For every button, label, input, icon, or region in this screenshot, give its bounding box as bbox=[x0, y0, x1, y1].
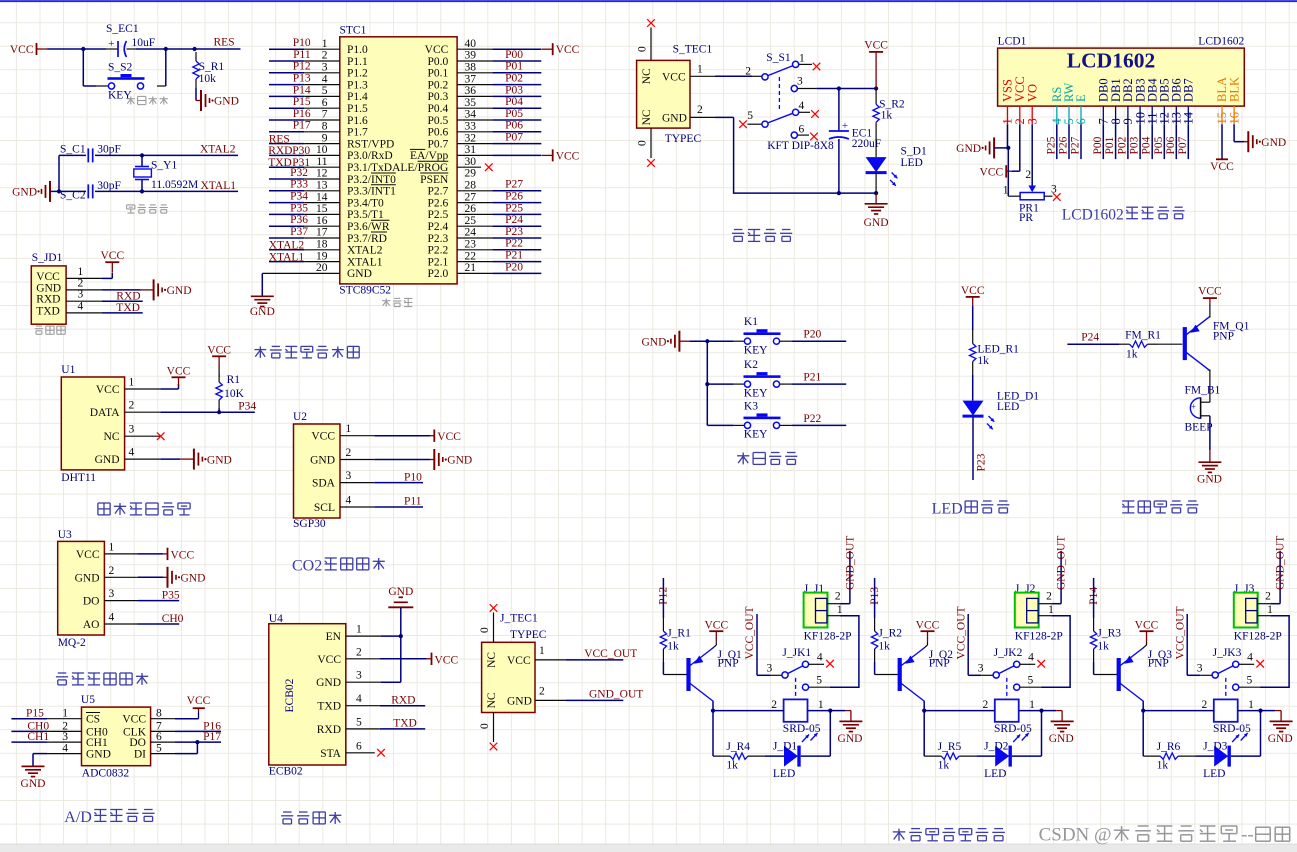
wire collector down bbox=[923, 702, 925, 757]
relay J_JK2 SRD-05 bbox=[995, 699, 1019, 721]
svg-text:1k: 1k bbox=[977, 355, 989, 367]
label 单片机最小系统 bbox=[254, 346, 266, 358]
dashed link switch to relay bbox=[795, 678, 797, 699]
svg-text:DO: DO bbox=[129, 737, 146, 749]
LCD BLK wire to GND bbox=[1233, 124, 1235, 141]
svg-text:SGP30: SGP30 bbox=[293, 518, 326, 530]
svg-text:GND_OUT: GND_OUT bbox=[589, 689, 643, 701]
svg-text:4: 4 bbox=[322, 73, 328, 85]
svg-text:XTAL1: XTAL1 bbox=[201, 180, 237, 192]
svg-text:P07: P07 bbox=[1177, 136, 1189, 154]
sensor U1 DHT11 box bbox=[61, 377, 124, 470]
svg-text:J_JK3: J_JK3 bbox=[1213, 647, 1242, 659]
pushbutton K1 KEY bbox=[707, 340, 733, 342]
svg-text:P11: P11 bbox=[404, 496, 422, 508]
svg-text:LED: LED bbox=[984, 768, 1006, 780]
svg-text:SRD-05: SRD-05 bbox=[994, 723, 1032, 735]
node junction R1/DATA bbox=[217, 410, 221, 414]
svg-text:NC: NC bbox=[486, 652, 498, 668]
svg-text:RXD: RXD bbox=[317, 724, 341, 736]
STC1 pin 8 P1.7 bbox=[269, 131, 304, 133]
svg-text:P2.7: P2.7 bbox=[428, 186, 449, 198]
svg-text:24: 24 bbox=[465, 227, 477, 239]
svg-text:KF128-2P: KF128-2P bbox=[1015, 631, 1063, 643]
STC1 pin 3 P1.2 bbox=[269, 72, 304, 74]
node junction collector/coil bbox=[922, 709, 926, 713]
svg-text:TXD: TXD bbox=[36, 305, 60, 317]
U4 pin6 STA no-connect bbox=[346, 752, 375, 754]
svg-text:20: 20 bbox=[316, 262, 328, 274]
svg-text:2: 2 bbox=[1265, 591, 1271, 603]
svg-text:5: 5 bbox=[1247, 674, 1253, 686]
svg-text:J_R3: J_R3 bbox=[1097, 628, 1121, 640]
svg-text:VCC: VCC bbox=[100, 250, 124, 262]
svg-text:P02: P02 bbox=[505, 73, 523, 85]
svg-text:SCL: SCL bbox=[314, 502, 335, 514]
svg-text:PR: PR bbox=[1019, 212, 1033, 224]
U5 pin3 wire CH1 bbox=[11, 741, 47, 743]
wire junction down to LED row bbox=[1041, 711, 1043, 757]
svg-text:1k: 1k bbox=[667, 641, 679, 653]
svg-text:DI: DI bbox=[134, 749, 146, 761]
svg-text:VCC_OUT: VCC_OUT bbox=[1174, 606, 1186, 659]
ground (reset) bbox=[200, 90, 202, 111]
wire FM_R1 to base bbox=[1158, 343, 1182, 345]
svg-text:VCC: VCC bbox=[1135, 620, 1159, 632]
U5 pin6 wire P17 bbox=[175, 741, 221, 743]
svg-text:14: 14 bbox=[316, 191, 328, 203]
no-connect X (J_TEC1 top) bbox=[490, 604, 498, 612]
STC1 pin 6 P1.5 bbox=[269, 107, 304, 109]
dashed link switch to relay bbox=[1006, 678, 1008, 699]
svg-text:J_R2: J_R2 bbox=[878, 628, 902, 640]
svg-text:VCC: VCC bbox=[437, 431, 461, 443]
STC1 pin 5 P1.4 bbox=[269, 95, 304, 97]
svg-text:LED: LED bbox=[997, 401, 1019, 413]
svg-text:P16: P16 bbox=[293, 108, 311, 120]
wire S_R1 to GND bbox=[195, 88, 197, 101]
svg-text:VCC: VCC bbox=[435, 654, 459, 666]
svg-text:GND: GND bbox=[1049, 733, 1074, 745]
svg-text:P23: P23 bbox=[505, 226, 523, 238]
svg-text:STC89C52: STC89C52 bbox=[339, 285, 391, 297]
svg-text:4: 4 bbox=[817, 652, 823, 664]
transistor J_Q2 PNP bbox=[898, 658, 902, 691]
svg-text:S_D1: S_D1 bbox=[901, 146, 927, 158]
svg-text:S_S1: S_S1 bbox=[766, 52, 791, 64]
svg-text:1: 1 bbox=[109, 541, 115, 553]
svg-text:P1.3: P1.3 bbox=[347, 79, 368, 91]
svg-text:GND: GND bbox=[75, 572, 100, 584]
svg-text:P0.5: P0.5 bbox=[428, 115, 449, 127]
svg-text:10uF: 10uF bbox=[132, 37, 156, 49]
ground (U1) bbox=[193, 449, 195, 470]
pushbutton K2 KEY bbox=[707, 383, 733, 385]
node junction XTAL1 bbox=[140, 189, 144, 193]
svg-text:13: 13 bbox=[316, 180, 328, 192]
svg-text:CSDN @: CSDN @ bbox=[1039, 825, 1112, 846]
svg-text:4: 4 bbox=[78, 300, 84, 312]
svg-text:P0.0: P0.0 bbox=[428, 56, 449, 68]
svg-text:VCC: VCC bbox=[122, 714, 146, 726]
S_JD1 pin3 wire RXD bbox=[102, 300, 143, 302]
svg-text:J_R5: J_R5 bbox=[938, 741, 962, 753]
svg-text:P2.6: P2.6 bbox=[428, 197, 449, 209]
svg-text:SDA: SDA bbox=[312, 478, 336, 490]
svg-text:P3.4/T0: P3.4/T0 bbox=[347, 197, 384, 209]
svg-text:1: 1 bbox=[346, 423, 352, 435]
svg-text:18: 18 bbox=[316, 239, 328, 251]
wire VCC to RES net bbox=[48, 48, 107, 50]
svg-text:P1.2: P1.2 bbox=[347, 68, 368, 80]
led J_D1 bbox=[765, 755, 784, 757]
svg-text:2: 2 bbox=[1201, 699, 1207, 711]
bottom scrollbar strip bbox=[0, 844, 1297, 852]
svg-text:PNP: PNP bbox=[718, 657, 739, 669]
svg-text:GND: GND bbox=[447, 455, 472, 467]
svg-text:1: 1 bbox=[1003, 185, 1009, 197]
STC1 pin 9 RST/VPD bbox=[269, 143, 304, 145]
svg-text:VCC: VCC bbox=[1198, 286, 1222, 298]
svg-text:RES: RES bbox=[214, 37, 235, 49]
svg-text:32: 32 bbox=[465, 132, 477, 144]
U4 pin4 wire RXD bbox=[346, 705, 380, 707]
svg-text:P2.4: P2.4 bbox=[428, 221, 449, 233]
svg-text:RST/VPD: RST/VPD bbox=[347, 138, 394, 150]
svg-text:LED: LED bbox=[1203, 768, 1225, 780]
svg-text:--: -- bbox=[1241, 825, 1254, 846]
svg-text:P2.5: P2.5 bbox=[428, 209, 449, 221]
LCD VSS wire bbox=[1007, 124, 1009, 148]
svg-text:VCC: VCC bbox=[317, 654, 341, 666]
wire J_R1 to base bbox=[662, 662, 664, 675]
svg-text:NC: NC bbox=[641, 109, 653, 125]
svg-text:VCC: VCC bbox=[76, 549, 100, 561]
svg-text:GND_OUT: GND_OUT bbox=[1056, 536, 1068, 590]
svg-text:CO2: CO2 bbox=[292, 558, 322, 575]
U5 pin1 wire P15 bbox=[11, 718, 47, 720]
svg-text:37: 37 bbox=[465, 73, 477, 85]
STC1 pin 16 P3.6/WR bbox=[269, 225, 304, 227]
svg-text:P05: P05 bbox=[1153, 136, 1165, 154]
svg-text:P17: P17 bbox=[293, 120, 311, 132]
svg-text:P21: P21 bbox=[803, 372, 821, 384]
svg-text:SRD-05: SRD-05 bbox=[1213, 723, 1251, 735]
wire collector to buzzer bbox=[1207, 369, 1209, 372]
svg-text:KEY: KEY bbox=[744, 345, 768, 357]
svg-text:P00: P00 bbox=[505, 49, 523, 61]
ground (beeper) bbox=[1198, 461, 1221, 463]
svg-text:12: 12 bbox=[316, 168, 328, 180]
svg-text:1k: 1k bbox=[938, 760, 950, 772]
lcd LCD1 box bbox=[998, 48, 1245, 106]
svg-text:VCC: VCC bbox=[425, 44, 449, 56]
svg-text:A/D: A/D bbox=[64, 809, 92, 826]
svg-text:P21: P21 bbox=[505, 250, 523, 262]
svg-text:XTAL1: XTAL1 bbox=[269, 251, 305, 263]
svg-text:+: + bbox=[842, 120, 848, 132]
label 晶振电路 bbox=[127, 205, 135, 213]
svg-text:VCC: VCC bbox=[187, 695, 211, 707]
svg-text:38: 38 bbox=[465, 62, 477, 74]
label 单片机 bbox=[382, 298, 390, 306]
svg-text:VCC: VCC bbox=[704, 620, 728, 632]
svg-text:3: 3 bbox=[62, 731, 68, 743]
svg-text:GND: GND bbox=[1197, 473, 1222, 485]
svg-text:1: 1 bbox=[1048, 604, 1054, 616]
svg-text:VCC: VCC bbox=[167, 365, 191, 377]
svg-text:VCC: VCC bbox=[864, 40, 888, 52]
resistor J_R6 1k bbox=[1143, 755, 1160, 757]
connector S_TEC1 box bbox=[637, 60, 690, 128]
connector J_TEC1 box bbox=[482, 642, 535, 712]
svg-text:1: 1 bbox=[837, 604, 843, 616]
svg-text:PNP: PNP bbox=[929, 657, 950, 669]
svg-text:K3: K3 bbox=[744, 400, 758, 412]
svg-text:16: 16 bbox=[316, 215, 328, 227]
resistor J_R1 1k bbox=[662, 618, 664, 631]
LCD VCC wire bbox=[1019, 124, 1021, 171]
svg-text:1: 1 bbox=[62, 708, 68, 720]
svg-text:TXD: TXD bbox=[268, 157, 292, 169]
adc U5 ADC0832 box bbox=[82, 707, 151, 766]
svg-text:19: 19 bbox=[316, 250, 328, 262]
svg-text:+: + bbox=[108, 38, 114, 50]
svg-text:GND: GND bbox=[36, 282, 61, 294]
svg-text:LCD1602: LCD1602 bbox=[1198, 36, 1244, 48]
svg-text:KEY: KEY bbox=[744, 429, 768, 441]
svg-text:J_TEC1: J_TEC1 bbox=[500, 613, 538, 625]
svg-text:TXD: TXD bbox=[393, 718, 417, 730]
svg-text:5: 5 bbox=[1028, 674, 1034, 686]
S_JD1 pin4 wire TXD bbox=[102, 312, 143, 314]
svg-text:3: 3 bbox=[109, 588, 115, 600]
svg-text:GND: GND bbox=[207, 454, 232, 466]
resistor J_R2 1k bbox=[874, 618, 876, 631]
sensor U2 SGP30 box bbox=[294, 424, 341, 518]
S_TEC1 shield wire bottom bbox=[650, 128, 652, 158]
resistor J_R3 1k bbox=[1093, 618, 1095, 631]
svg-text:GND: GND bbox=[86, 749, 111, 761]
svg-text:2: 2 bbox=[356, 646, 362, 658]
svg-text:CH1: CH1 bbox=[27, 731, 49, 743]
resistor S_R1 10k bbox=[195, 52, 197, 61]
svg-text:VCC: VCC bbox=[662, 72, 686, 84]
svg-text:1: 1 bbox=[356, 624, 362, 636]
svg-text:P03: P03 bbox=[1129, 136, 1141, 154]
S_S1 dashed gang line bbox=[778, 77, 780, 112]
svg-text:S_TEC1: S_TEC1 bbox=[673, 44, 713, 56]
node junction left of cap bbox=[81, 47, 85, 51]
node junction DO/DI bbox=[195, 740, 199, 744]
U1 pin2 wire DATA to P34 bbox=[160, 411, 255, 413]
U2 pin3 wire SDA P10 bbox=[374, 482, 423, 484]
U4 pin2 wire to VCC bbox=[346, 658, 380, 660]
STC1 pin 17 P3.7/RD bbox=[269, 237, 304, 239]
svg-text:RES: RES bbox=[269, 133, 290, 145]
resistor R1 10K bbox=[218, 365, 220, 377]
U3 pin2 wire to GND bbox=[138, 576, 163, 578]
svg-text:0: 0 bbox=[637, 140, 649, 146]
wire P13 to J_R2 bbox=[874, 578, 876, 618]
svg-text:J_R6: J_R6 bbox=[1157, 741, 1181, 753]
svg-text:1k: 1k bbox=[1157, 760, 1169, 772]
svg-text:GND: GND bbox=[21, 778, 46, 790]
svg-text:P22: P22 bbox=[803, 413, 821, 425]
svg-text:1k: 1k bbox=[1126, 349, 1138, 361]
svg-text:1: 1 bbox=[818, 699, 824, 711]
svg-text:31: 31 bbox=[465, 144, 477, 156]
svg-text:P22: P22 bbox=[505, 238, 523, 250]
svg-text:1: 1 bbox=[1029, 699, 1035, 711]
svg-text:11.0592M: 11.0592M bbox=[151, 179, 198, 191]
svg-text:5: 5 bbox=[356, 716, 362, 728]
ground (crystal) bbox=[49, 181, 51, 202]
svg-text:P1.6: P1.6 bbox=[347, 115, 368, 127]
svg-text:S_S2: S_S2 bbox=[108, 62, 133, 74]
U5 pin5 wire to DO bbox=[175, 753, 197, 755]
J_TEC1 shield wire bottom bbox=[493, 713, 495, 743]
svg-text:2: 2 bbox=[982, 699, 988, 711]
STC1 pin 20 GND wire and ground bbox=[262, 272, 340, 274]
svg-text:CH0: CH0 bbox=[162, 613, 184, 625]
transistor J_Q1 PNP bbox=[686, 658, 690, 691]
svg-text:GND_OUT: GND_OUT bbox=[1275, 536, 1287, 590]
svg-text:P25: P25 bbox=[505, 202, 523, 214]
svg-text:2: 2 bbox=[835, 591, 841, 603]
label 下载口 bbox=[35, 326, 43, 334]
STC1 pin 1 P1.0 bbox=[269, 48, 304, 50]
node junction at C2 bbox=[57, 189, 61, 193]
U4 EN wire to gnd net bbox=[346, 635, 381, 637]
svg-text:BEEP: BEEP bbox=[1185, 421, 1213, 433]
svg-text:XTAL1: XTAL1 bbox=[347, 256, 383, 268]
svg-text:4: 4 bbox=[1028, 652, 1034, 664]
svg-text:AO: AO bbox=[83, 619, 100, 631]
svg-text:P0.2: P0.2 bbox=[428, 79, 449, 91]
svg-text:P3.3/INT1: P3.3/INT1 bbox=[347, 186, 396, 198]
STC1 pin 14 P3.4/T0 bbox=[269, 202, 304, 204]
bluetooth U4 ECB02 box bbox=[269, 624, 346, 765]
svg-text:NC: NC bbox=[104, 431, 120, 443]
svg-text:10: 10 bbox=[316, 144, 328, 156]
ground (relay 1) bbox=[839, 720, 862, 722]
svg-text:P10: P10 bbox=[293, 37, 311, 49]
svg-text:DB7: DB7 bbox=[1182, 78, 1196, 102]
svg-text:S_R1: S_R1 bbox=[199, 61, 225, 73]
node junction EC1 top bbox=[837, 86, 841, 90]
U5 pin2 wire CH0 bbox=[11, 730, 47, 732]
svg-text:GND: GND bbox=[1268, 733, 1293, 745]
capacitor S_C2 30pF bbox=[59, 190, 86, 192]
svg-text:2: 2 bbox=[78, 277, 84, 289]
connector S_JD1 box bbox=[31, 266, 66, 324]
svg-text:RXD: RXD bbox=[268, 145, 292, 157]
svg-text:8: 8 bbox=[322, 121, 328, 133]
svg-text:4: 4 bbox=[799, 100, 805, 112]
svg-text:S_Y1: S_Y1 bbox=[151, 160, 177, 172]
svg-text:P1.7: P1.7 bbox=[347, 127, 368, 139]
S_TEC1 shield wire top bbox=[650, 28, 652, 61]
node junction VSS/pot bbox=[1006, 146, 1010, 150]
svg-text:1k: 1k bbox=[1097, 641, 1109, 653]
svg-text:J_D2: J_D2 bbox=[984, 740, 1009, 752]
svg-text:VCC: VCC bbox=[207, 344, 231, 356]
svg-text:XTAL2: XTAL2 bbox=[269, 240, 305, 252]
node junction EN bbox=[399, 634, 403, 638]
capacitor EC1 220uF bbox=[838, 89, 840, 132]
wire P24 to FM_R1 bbox=[1067, 343, 1119, 345]
svg-text:LED: LED bbox=[932, 501, 963, 518]
svg-text:ADC0832: ADC0832 bbox=[82, 768, 130, 780]
svg-text:2: 2 bbox=[322, 50, 328, 62]
ground (keys) bbox=[678, 331, 680, 352]
svg-text:VCC: VCC bbox=[916, 620, 940, 632]
U5 pin7 wire P16 bbox=[175, 730, 221, 732]
svg-text:P27: P27 bbox=[1070, 136, 1082, 154]
svg-text:EN: EN bbox=[326, 631, 342, 643]
svg-text:P3.7/RD: P3.7/RD bbox=[347, 233, 387, 245]
svg-text:8: 8 bbox=[156, 708, 162, 720]
resistor J_R4 1k bbox=[713, 755, 730, 757]
svg-text:P1.4: P1.4 bbox=[347, 91, 368, 103]
svg-text:GND: GND bbox=[250, 306, 275, 318]
crystal S_Y1 11.0592M bbox=[141, 155, 143, 166]
svg-text:P2.3: P2.3 bbox=[428, 233, 449, 245]
ground (relay 2) bbox=[1051, 720, 1074, 722]
STC1 pin 18 XTAL2 bbox=[269, 249, 304, 251]
wire junction down to LED row bbox=[1260, 711, 1262, 757]
svg-text:DHT11: DHT11 bbox=[61, 472, 96, 484]
svg-text:LED: LED bbox=[901, 157, 923, 169]
svg-text:P20: P20 bbox=[803, 329, 821, 341]
svg-text:1: 1 bbox=[322, 38, 328, 50]
label 继电器控制电路 bbox=[893, 829, 906, 841]
wire C1 to XTAL2 bbox=[95, 154, 238, 156]
svg-text:TYPEC: TYPEC bbox=[510, 629, 547, 641]
ground (LCD VSS) bbox=[993, 137, 995, 158]
transistor J_Q3 PNP bbox=[1117, 658, 1121, 691]
STC1 pin 4 P1.3 bbox=[269, 84, 304, 86]
svg-text:K2: K2 bbox=[744, 359, 758, 371]
svg-text:P2.0: P2.0 bbox=[428, 268, 449, 280]
label 蜂鸣器电路 bbox=[1122, 501, 1134, 513]
resistor LED_R1 1k bbox=[972, 330, 974, 344]
svg-text:P27: P27 bbox=[505, 179, 523, 191]
wire gnd to caps bbox=[50, 190, 59, 192]
U4 pin3 GND wire bbox=[346, 681, 381, 683]
svg-text:P3.0/RxD: P3.0/RxD bbox=[347, 150, 393, 162]
svg-text:3: 3 bbox=[346, 470, 352, 482]
potentiometer PR1 PR bbox=[1028, 186, 1036, 193]
svg-text:10K: 10K bbox=[224, 388, 245, 400]
svg-text:15: 15 bbox=[316, 203, 328, 215]
svg-text:4: 4 bbox=[356, 693, 362, 705]
svg-text:1: 1 bbox=[799, 53, 805, 65]
svg-text:ALE/PROG: ALE/PROG bbox=[392, 162, 448, 174]
svg-text:2: 2 bbox=[1046, 591, 1052, 603]
svg-text:2: 2 bbox=[697, 104, 703, 116]
svg-text:VCC_OUT: VCC_OUT bbox=[744, 606, 756, 659]
ground (supply) bbox=[875, 193, 877, 204]
svg-text:30pF: 30pF bbox=[97, 180, 121, 192]
svg-text:FM_R1: FM_R1 bbox=[1125, 330, 1161, 342]
U5 pin4 wire to GND bbox=[33, 753, 47, 755]
led J_D2 bbox=[976, 755, 995, 757]
mcu U STC1 box bbox=[340, 37, 457, 284]
dashed link switch to relay bbox=[1225, 678, 1227, 699]
node junction collector/coil bbox=[711, 709, 715, 713]
